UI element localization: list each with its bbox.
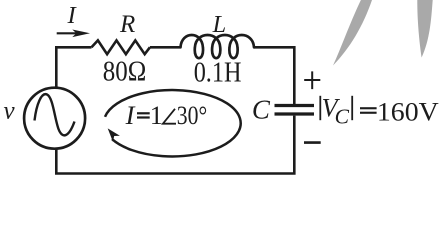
svg-text:v: v bbox=[4, 98, 16, 125]
svg-text:160V: 160V bbox=[377, 98, 439, 127]
polarity + sign bbox=[304, 71, 320, 89]
svg-text:L: L bbox=[212, 11, 227, 38]
phasor loop ellipse arrow bbox=[105, 90, 241, 156]
capacitor C top plate bbox=[275, 104, 315, 107]
svg-text:C: C bbox=[335, 104, 350, 128]
polarity − sign bbox=[304, 141, 321, 144]
watermark gray stroke (left) bbox=[333, 0, 372, 66]
resistor R bbox=[92, 40, 150, 54]
current direction arrow bbox=[57, 32, 78, 34]
svg-text:I: I bbox=[125, 100, 136, 130]
inductor L bbox=[181, 35, 255, 58]
svg-text:1: 1 bbox=[150, 100, 163, 130]
watermark gray stroke (right) bbox=[417, 0, 432, 58]
svg-text:80Ω: 80Ω bbox=[103, 57, 147, 88]
capacitor C bottom plate bbox=[275, 112, 315, 115]
wire: R to L bbox=[150, 46, 181, 49]
svg-text:30°: 30° bbox=[177, 100, 207, 130]
svg-text:C: C bbox=[252, 95, 271, 125]
svg-text:R: R bbox=[119, 11, 135, 38]
wire: L to node B (top-right corner) down to capacitor bbox=[254, 47, 294, 104]
wire: capacitor bottom plate to source (bottom return rail) bbox=[56, 116, 294, 174]
phasor arrowhead bbox=[108, 128, 120, 141]
value label |V_C|=160V bbox=[319, 96, 321, 120]
angle symbol ∠ bbox=[163, 109, 176, 124]
voltage source v (AC source circle) bbox=[24, 88, 85, 149]
sine symbol inside source bbox=[35, 94, 75, 135]
wire: source top to node A (top-left corner) bbox=[56, 47, 91, 88]
svg-text:0.1H: 0.1H bbox=[194, 58, 242, 89]
